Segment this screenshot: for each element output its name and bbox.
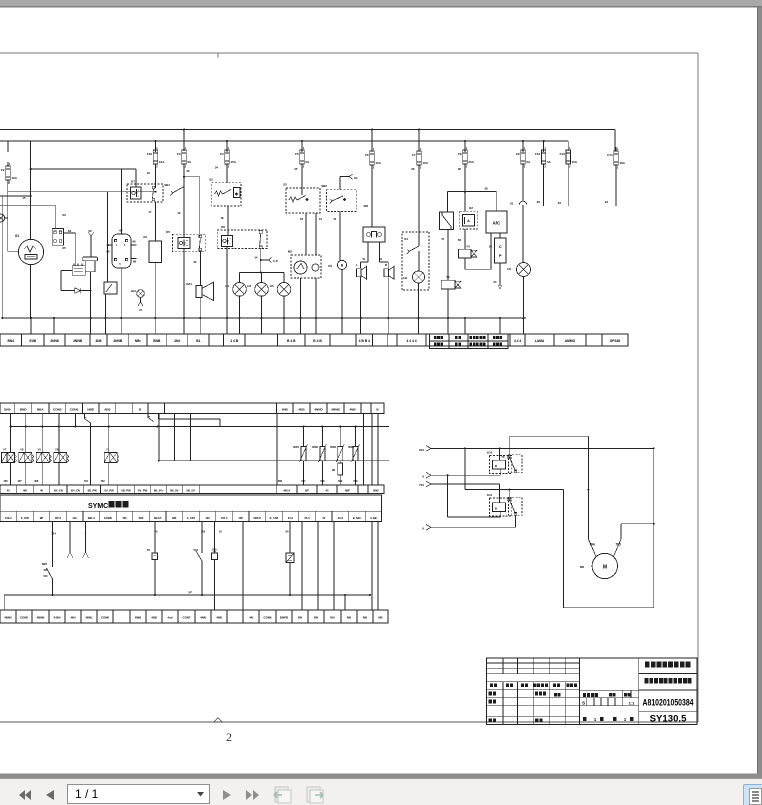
drawing frame bottom border xyxy=(0,718,698,723)
solenoid valve Y1 xyxy=(104,427,119,486)
svg-text:BP: BP xyxy=(40,516,44,520)
svg-text:6B_5V+: 6B_5V+ xyxy=(154,489,164,493)
solenoid valve Y8 xyxy=(19,427,34,486)
svg-text:34: 34 xyxy=(215,166,219,170)
svg-text:52: 52 xyxy=(379,257,382,261)
wire F5 to S3 xyxy=(294,164,302,188)
solenoid valve Y7 xyxy=(2,427,17,486)
svg-text:43: 43 xyxy=(605,200,609,204)
wire F9 with connector X1 xyxy=(510,164,527,263)
lamp H5 xyxy=(507,263,530,319)
wire 701 to K11 coil xyxy=(431,484,500,503)
svg-text:704: 704 xyxy=(589,543,595,547)
svg-text:6BF: 6BF xyxy=(139,516,144,520)
svg-text:BP: BP xyxy=(305,489,309,493)
svg-text:19: 19 xyxy=(319,217,322,221)
relay K11 xyxy=(487,493,522,516)
svg-text:762: 762 xyxy=(101,480,106,483)
svg-text:NBD: NBD xyxy=(87,407,94,411)
svg-text:65: 65 xyxy=(62,246,66,250)
wire 34 down arrow xyxy=(493,263,502,289)
valve YV xyxy=(458,229,477,258)
node fuel pump feed xyxy=(88,229,94,257)
wire M2 to ground xyxy=(301,278,317,318)
wire F7 to S4 box xyxy=(411,165,419,232)
svg-text:306: 306 xyxy=(363,204,368,208)
wire left edge xyxy=(1,196,3,319)
svg-text:M2: M2 xyxy=(288,250,292,254)
buzzer HA xyxy=(328,260,346,318)
terminal strip XT1 xyxy=(0,334,628,349)
svg-text:NB: NB xyxy=(347,616,351,620)
svg-text:Y1: Y1 xyxy=(106,448,110,452)
svg-text:BM: BM xyxy=(172,516,176,520)
svg-text:K7: K7 xyxy=(131,180,135,184)
svg-text:RW1: RW1 xyxy=(293,445,299,449)
wire 32 to horn xyxy=(193,251,200,285)
drawing number A810201050384 xyxy=(643,697,694,707)
svg-text:436: 436 xyxy=(205,516,210,520)
resistor unit A0 xyxy=(143,235,161,318)
svg-text:46: 46 xyxy=(40,489,43,493)
svg-text:M: M xyxy=(603,565,607,571)
first page button xyxy=(19,789,32,801)
wire strip2 drops xyxy=(11,414,378,486)
drawing frame right border xyxy=(697,53,699,722)
svg-text:56: 56 xyxy=(458,238,462,242)
svg-text:YV: YV xyxy=(466,245,470,249)
relay K10 xyxy=(487,448,522,473)
svg-text:P: P xyxy=(499,253,502,258)
lamp H3 xyxy=(270,283,291,319)
fuse F14 xyxy=(605,147,626,206)
svg-text:BN5: BN5 xyxy=(4,407,10,411)
sensor cell xyxy=(286,522,294,596)
fuse F3 xyxy=(177,146,192,169)
svg-text:G1: G1 xyxy=(15,234,19,238)
svg-text:42: 42 xyxy=(558,201,562,205)
connector C.P xyxy=(254,256,278,264)
ground bus xyxy=(2,317,526,334)
svg-text:F12: F12 xyxy=(535,152,541,156)
svg-text:BBr-0: BBr-0 xyxy=(88,516,96,520)
svg-text:4NNB: 4NNB xyxy=(73,339,83,343)
switch S08 xyxy=(212,548,218,610)
svg-text:4BNL: 4BNL xyxy=(85,616,93,620)
title block texts xyxy=(489,683,636,722)
resistor 98 xyxy=(332,461,343,485)
svg-text:NBr: NBr xyxy=(135,339,142,343)
switch S3 xyxy=(283,183,320,214)
svg-text:NB: NB xyxy=(363,616,367,620)
svg-text:C.P: C.P xyxy=(273,259,278,263)
wire K11 contact header 489 xyxy=(465,448,590,499)
wire relay to diode row xyxy=(61,271,75,291)
svg-text:105: 105 xyxy=(201,530,206,534)
svg-text:B4_CN: B4_CN xyxy=(54,489,63,493)
svg-text:25: 25 xyxy=(294,167,298,171)
svg-text:S_CN7: S_CN7 xyxy=(187,516,196,520)
wire K5 coil to ground xyxy=(183,249,185,319)
svg-text:586: 586 xyxy=(278,480,283,483)
svg-text:K9: K9 xyxy=(328,264,332,268)
wire motor 705 xyxy=(614,524,622,557)
svg-text:55: 55 xyxy=(489,245,493,249)
svg-text:BNB: BNB xyxy=(135,616,141,620)
potentiometer RW2 xyxy=(312,427,326,486)
wire motor loop xyxy=(564,447,655,607)
svg-text:6B_PW: 6B_PW xyxy=(88,489,98,493)
wire bridge 419 xyxy=(159,414,220,427)
svg-text:2: 2 xyxy=(226,730,232,744)
svg-text:15: 15 xyxy=(22,196,26,200)
svg-text:CON6: CON6 xyxy=(101,616,109,620)
node input 6b xyxy=(422,525,431,531)
last page button xyxy=(246,789,260,801)
lamp H6 xyxy=(403,271,424,318)
terminal strip XT2 xyxy=(0,403,384,414)
next page button xyxy=(222,789,232,801)
wire 6a to K10 coil xyxy=(431,469,501,476)
svg-text:98: 98 xyxy=(332,468,335,472)
svg-text:GP348: GP348 xyxy=(610,339,620,343)
wire G1 feed xyxy=(8,141,31,318)
wire 52 speaker right xyxy=(379,242,388,268)
node S4 link xyxy=(340,174,358,190)
ignition switch SA1 xyxy=(112,229,131,269)
svg-text:P1: P1 xyxy=(147,548,151,552)
pressure switch S2 xyxy=(209,178,241,207)
switch SB2 xyxy=(321,184,356,212)
svg-text:18: 18 xyxy=(300,217,303,221)
fuse F12 xyxy=(535,146,552,206)
motor M xyxy=(580,553,618,578)
title block xyxy=(486,658,697,725)
svg-text:4NN8: 4NN8 xyxy=(50,339,59,343)
svg-text:M6: M6 xyxy=(580,565,584,569)
svg-text:H1: H1 xyxy=(225,284,229,288)
svg-text:6V_PW: 6V_PW xyxy=(138,489,148,493)
previous view icon xyxy=(272,786,294,804)
speaker R xyxy=(384,263,394,318)
svg-text:CON7: CON7 xyxy=(182,616,190,620)
sidebar toggle button xyxy=(743,784,762,805)
svg-text:22: 22 xyxy=(88,229,92,233)
model SY130.5 xyxy=(650,714,687,725)
svg-text:B 4 B: B 4 B xyxy=(313,339,322,343)
wire common return y2 xyxy=(4,590,371,610)
svg-text:10A: 10A xyxy=(422,161,428,165)
svg-text:465-0: 465-0 xyxy=(283,489,290,493)
svg-text:63: 63 xyxy=(62,213,66,217)
wire jog a xyxy=(85,414,91,423)
switch-lamp unit S4 xyxy=(402,232,429,290)
svg-text:TC: TC xyxy=(501,456,504,459)
terminal strip XT3 xyxy=(0,485,384,494)
svg-text:B4_CN: B4_CN xyxy=(71,489,80,493)
svg-text:455-0: 455-0 xyxy=(221,516,228,520)
svg-text:38: 38 xyxy=(484,187,488,191)
svg-text:8_CN5: 8_CN5 xyxy=(21,516,30,520)
wire number labels above XT3 xyxy=(4,480,359,483)
svg-text:SB5: SB5 xyxy=(42,562,48,566)
fuse F4 xyxy=(220,146,237,169)
svg-text:51: 51 xyxy=(363,257,366,261)
AC amplifier xyxy=(486,192,507,234)
fuse F6 xyxy=(365,147,382,170)
svg-text:C: C xyxy=(499,244,502,249)
svg-text:4NB: 4NB xyxy=(349,407,356,411)
svg-text:X1: X1 xyxy=(510,202,514,206)
wire S3 to M2 xyxy=(300,213,322,255)
svg-text:29: 29 xyxy=(537,200,541,204)
svg-text:F3: F3 xyxy=(177,152,181,156)
wire K6 contact to lamp feeder xyxy=(260,249,262,272)
svg-text:15A: 15A xyxy=(230,160,236,164)
svg-text:CON5: CON5 xyxy=(20,616,28,620)
svg-text:17: 17 xyxy=(148,210,152,214)
svg-text:10A: 10A xyxy=(619,161,625,165)
relay K2 contact xyxy=(440,192,454,230)
bus B+ top xyxy=(0,129,615,131)
radio unit xyxy=(363,227,385,242)
svg-text:4DB: 4DB xyxy=(298,407,305,411)
svg-text:RW2: RW2 xyxy=(312,445,318,449)
viewer toolbar xyxy=(0,778,762,805)
wire ignition switch connections xyxy=(106,169,136,318)
node input 701 xyxy=(419,481,431,487)
wire stub fork b xyxy=(83,522,89,559)
svg-text:H3: H3 xyxy=(270,284,274,288)
svg-text:4N4: 4N4 xyxy=(174,339,180,343)
svg-text:20A: 20A xyxy=(468,160,474,164)
alternator G1 xyxy=(15,234,44,265)
svg-text:AB5: AB5 xyxy=(104,407,110,411)
svg-text:CON5: CON5 xyxy=(53,407,62,411)
svg-text:598: 598 xyxy=(353,480,358,483)
svg-text:6BP-P: 6BP-P xyxy=(253,516,261,520)
svg-text:B1: B1 xyxy=(196,339,200,343)
fuse F8 xyxy=(458,146,475,169)
svg-text:6B_5V-: 6B_5V- xyxy=(170,489,179,493)
svg-text:BP-0: BP-0 xyxy=(55,516,61,520)
svg-text:15A: 15A xyxy=(572,160,578,164)
svg-text:SB2: SB2 xyxy=(321,184,327,188)
svg-text:brN0N: brN0N xyxy=(104,516,112,520)
horn NA1 xyxy=(186,282,213,318)
svg-text:Y8: Y8 xyxy=(20,448,24,452)
wire K11 coil return xyxy=(448,475,501,517)
svg-text:B_NBr: B_NBr xyxy=(353,516,361,520)
svg-text:CON5: CON5 xyxy=(70,407,79,411)
svg-text:1:1: 1:1 xyxy=(629,700,636,705)
svg-text:F6: F6 xyxy=(365,153,369,157)
potentiometer RW4 xyxy=(348,427,359,486)
svg-text:K10: K10 xyxy=(487,451,493,455)
svg-text:4BN5: 4BN5 xyxy=(4,616,12,620)
svg-text:A5-0: A5-0 xyxy=(337,516,343,520)
svg-text:45: 45 xyxy=(7,489,10,493)
svg-text:18: 18 xyxy=(220,216,224,220)
relay K6 xyxy=(217,225,267,249)
svg-text:6BF: 6BF xyxy=(345,489,350,493)
wire 601 header xyxy=(431,447,654,449)
svg-text:L: L xyxy=(356,263,358,267)
svg-text:458: 458 xyxy=(34,480,39,483)
drawing title cell xyxy=(645,678,692,683)
svg-text:587: 587 xyxy=(301,480,306,483)
wire jog b xyxy=(148,414,154,422)
svg-text:4N: 4N xyxy=(249,616,253,620)
svg-text:F5: F5 xyxy=(295,152,299,156)
svg-text:4 B B 4: 4 B B 4 xyxy=(359,339,370,343)
svg-text:NBA: NBA xyxy=(37,407,44,411)
svg-text:BN: BN xyxy=(314,616,318,620)
fuse F5 xyxy=(295,146,310,169)
relay KA small xyxy=(72,264,85,276)
potentiometer RW3 xyxy=(330,427,344,463)
svg-text:S2: S2 xyxy=(209,178,213,182)
svg-text:14: 14 xyxy=(254,256,258,260)
wiper motor M2 xyxy=(288,250,321,279)
svg-text:761: 761 xyxy=(84,480,89,483)
svg-text:4 4 B: 4 4 B xyxy=(230,339,238,343)
wire 31 to buzzer xyxy=(333,212,340,261)
wire labels below SYMC xyxy=(51,530,289,536)
svg-text:E4B: E4B xyxy=(30,339,37,343)
potentiometer RW1 xyxy=(293,427,307,486)
wire F6 to radio xyxy=(363,165,372,227)
wire harness left horizontals xyxy=(0,168,157,206)
wire 51 speaker left xyxy=(361,242,368,268)
svg-text:66: 66 xyxy=(106,250,110,254)
diode VD1 xyxy=(75,288,92,293)
switch P1 xyxy=(147,522,158,596)
wire motor 704 xyxy=(588,436,596,556)
svg-text:4BNB: 4BNB xyxy=(37,616,45,620)
company name cell xyxy=(645,662,690,668)
svg-text:66: 66 xyxy=(132,240,136,244)
wire F4 to S2 xyxy=(215,164,227,183)
compressor clutch CP xyxy=(489,233,506,263)
svg-text:S: S xyxy=(582,701,585,706)
svg-text:A/C: A/C xyxy=(492,221,501,226)
svg-text:4NB: 4NB xyxy=(282,407,289,411)
wire 64 to relay xyxy=(62,233,75,266)
svg-text:4nd: 4nd xyxy=(167,616,172,620)
svg-text:H6: H6 xyxy=(403,276,407,280)
svg-text:F4: F4 xyxy=(220,152,224,156)
svg-text:4N8: 4N8 xyxy=(95,339,101,343)
svg-text:10A: 10A xyxy=(159,160,165,164)
svg-text:456: 456 xyxy=(4,480,9,483)
connector X63 xyxy=(52,206,71,246)
next view icon xyxy=(303,786,326,804)
svg-text:F13: F13 xyxy=(560,152,566,156)
solenoid valve Y6 xyxy=(54,427,69,486)
svg-text:BN5: BN5 xyxy=(373,489,379,493)
bus ACC second xyxy=(0,140,568,142)
wire stub fork a xyxy=(67,522,73,559)
svg-text:31: 31 xyxy=(333,217,337,221)
svg-text:BN: BN xyxy=(330,616,334,620)
svg-text:588: 588 xyxy=(320,480,325,483)
valve YC xyxy=(441,275,461,318)
svg-text:6B_5V-: 6B_5V- xyxy=(186,489,195,493)
relay K7 xyxy=(127,169,163,202)
svg-text:F2: F2 xyxy=(1,168,5,172)
previous page button xyxy=(45,789,55,801)
svg-text:Y5: Y5 xyxy=(38,448,42,452)
top gray window bar xyxy=(0,0,762,8)
svg-text:34B4: 34B4 xyxy=(54,616,61,620)
fuse F9 xyxy=(516,146,531,169)
controller SYMC xyxy=(0,495,382,522)
switch SB1 xyxy=(164,183,184,196)
svg-text:43P: 43P xyxy=(238,516,243,520)
svg-text:K2: K2 xyxy=(469,206,473,210)
svg-text:57: 57 xyxy=(441,237,445,241)
wire 57 K2 contact to YC xyxy=(441,229,448,280)
svg-text:A810201050384: A810201050384 xyxy=(643,697,694,707)
svg-text:4B4: 4B4 xyxy=(70,616,76,620)
page number 2 xyxy=(226,730,232,744)
svg-text:4 4 4: 4 4 4 xyxy=(514,339,521,343)
svg-text:34: 34 xyxy=(493,280,497,284)
svg-text:4NN: 4NN xyxy=(200,616,206,620)
svg-text:F9: F9 xyxy=(516,152,520,156)
node input 601 xyxy=(419,446,431,452)
svg-text:U-NB: U-NB xyxy=(370,516,377,520)
svg-text:4NB: 4NB xyxy=(216,616,222,620)
wire 17 and resistor A0 xyxy=(148,164,155,241)
svg-text:Y6: Y6 xyxy=(55,448,59,452)
solenoid valve Y5 xyxy=(36,427,51,486)
svg-text:26: 26 xyxy=(187,169,191,173)
svg-text:64: 64 xyxy=(68,229,72,233)
wire F3 branch xyxy=(177,164,199,238)
svg-text:A0: A0 xyxy=(143,235,147,239)
svg-text:B_CN5: B_CN5 xyxy=(270,516,279,520)
fuse F13 xyxy=(558,146,578,206)
svg-text:4NND: 4NND xyxy=(314,407,323,411)
drawing frame top border xyxy=(0,53,698,58)
page number box xyxy=(67,784,210,804)
svg-text:CON6: CON6 xyxy=(263,616,271,620)
svg-text:4NNB: 4NNB xyxy=(113,339,123,343)
svg-text:4 4 4 4: 4 4 4 4 xyxy=(406,339,416,343)
svg-text:K5: K5 xyxy=(166,230,170,234)
svg-text:NA1: NA1 xyxy=(186,282,192,286)
svg-text:Y7: Y7 xyxy=(3,448,7,452)
svg-text:BNPB: BNPB xyxy=(280,616,288,620)
svg-text:45: 45 xyxy=(326,489,329,493)
svg-text:69: 69 xyxy=(133,260,137,264)
wire S2 to K6 xyxy=(220,206,228,235)
lamp charge indicator xyxy=(0,214,8,222)
svg-text:16: 16 xyxy=(147,171,151,175)
wire 6b xyxy=(431,515,516,527)
wire K6 coil ground xyxy=(226,246,228,318)
svg-text:4BB: 4BB xyxy=(151,616,157,620)
svg-text:F14: F14 xyxy=(607,153,613,157)
terminal strip XT4 xyxy=(0,610,388,623)
svg-text:BN: BN xyxy=(298,616,302,620)
wire fuse feeds from buses xyxy=(8,129,615,153)
svg-text:S3: S3 xyxy=(283,183,287,187)
svg-text:H2: H2 xyxy=(247,284,251,288)
fuse F10 xyxy=(147,146,165,169)
